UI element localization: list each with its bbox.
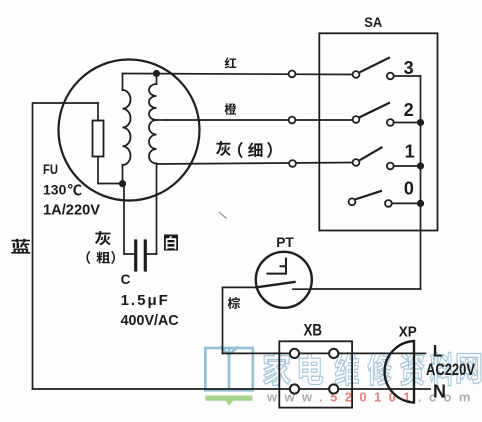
svg-text:FU: FU bbox=[43, 161, 58, 177]
wire blue to XB (bottom row) bbox=[33, 388, 415, 390]
XB terminals bbox=[290, 349, 299, 358]
connector circle gray wire bbox=[289, 160, 296, 167]
label 灰（粗） bbox=[86, 231, 114, 264]
svg-text:3: 3 bbox=[404, 58, 414, 78]
terminal block XB bbox=[279, 341, 352, 407]
fuse FU bbox=[97, 103, 99, 121]
main winding (left coil) bbox=[122, 74, 124, 91]
label 白 (white on black) bbox=[164, 235, 178, 251]
SA position 2 contacts bbox=[353, 116, 360, 123]
svg-text:PT: PT bbox=[276, 234, 294, 250]
svg-text:0: 0 bbox=[404, 179, 414, 199]
wire orange 橙 bbox=[167, 119, 353, 122]
svg-text:1.5μF: 1.5μF bbox=[121, 292, 170, 309]
node dot (winding tops) bbox=[153, 70, 160, 77]
capacitor C leads bbox=[124, 184, 134, 254]
connector circle orange wire bbox=[289, 117, 296, 124]
watermark book icon bbox=[205, 348, 253, 391]
svg-text:1A/220V: 1A/220V bbox=[43, 202, 100, 219]
switch SA box bbox=[319, 33, 437, 230]
plug XP bbox=[385, 341, 414, 403]
svg-text:L: L bbox=[433, 343, 443, 361]
scan speck bbox=[220, 213, 227, 219]
svg-text:2: 2 bbox=[404, 100, 414, 120]
SA position 3 contacts bbox=[353, 71, 360, 78]
wire bus to PT bbox=[312, 288, 421, 290]
watermark text 家电维修资料网 bbox=[264, 352, 481, 385]
label 蓝 bbox=[11, 239, 30, 254]
wire red 红 bbox=[123, 74, 353, 75]
svg-text:1: 1 bbox=[405, 141, 415, 161]
thermal protector PT bbox=[256, 252, 312, 308]
svg-text:XP: XP bbox=[399, 324, 417, 340]
wire PT to XB (top row) bbox=[223, 352, 415, 354]
winding tap to orange wire bbox=[157, 119, 168, 121]
connector circle red wire bbox=[289, 71, 296, 78]
svg-text:130: 130 bbox=[43, 182, 67, 198]
SA position 0 contacts bbox=[349, 198, 356, 205]
svg-text:XB: XB bbox=[304, 320, 323, 339]
blue supply wire (left) bbox=[33, 103, 99, 389]
XP lead stubs bbox=[414, 352, 426, 354]
label 橙 bbox=[225, 103, 237, 115]
svg-text:C: C bbox=[121, 272, 131, 287]
svg-text:400V/AC: 400V/AC bbox=[121, 312, 179, 329]
label 灰（细） bbox=[216, 141, 272, 158]
svg-text:AC220V: AC220V bbox=[426, 361, 475, 379]
motor M1 outline bbox=[59, 60, 200, 201]
svg-text:N: N bbox=[433, 381, 446, 401]
SA common bus bbox=[420, 76, 422, 289]
brown wire 棕 bbox=[223, 287, 257, 353]
junction dot (fuse / main winding / capacitor) bbox=[119, 180, 126, 187]
capacitor C plates bbox=[134, 241, 137, 270]
auxiliary winding (right coil with tap) bbox=[156, 74, 158, 85]
label 红 bbox=[225, 57, 237, 68]
watermark green chevron bbox=[206, 396, 253, 406]
SA position 1 contacts bbox=[353, 159, 360, 166]
svg-text:SA: SA bbox=[364, 14, 382, 30]
wire gray-thin 灰（细） bbox=[157, 163, 353, 165]
